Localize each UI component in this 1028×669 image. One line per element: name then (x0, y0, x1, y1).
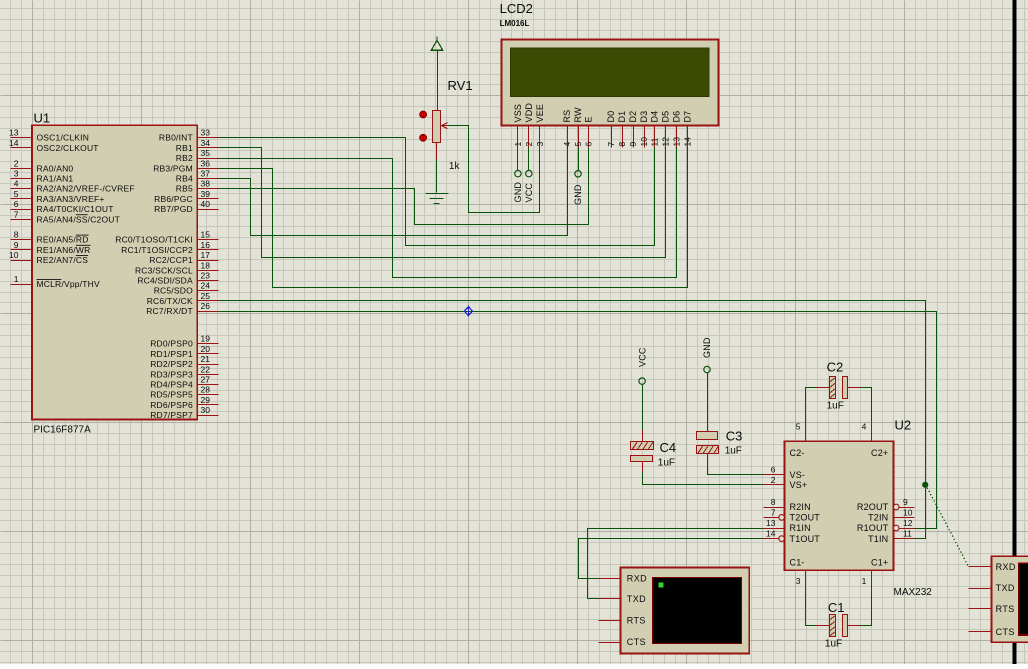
svg-text:25: 25 (201, 291, 211, 301)
svg-text:D4: D4 (650, 111, 660, 123)
wire GND to C3 (707, 373, 709, 421)
svg-text:RXD: RXD (627, 573, 647, 583)
ground symbol below RV1 (426, 194, 449, 204)
microcontroller U1 PIC16F877A body (32, 125, 197, 419)
capacitor C3 (697, 432, 719, 454)
svg-text:9: 9 (903, 497, 908, 507)
svg-text:CTS: CTS (996, 627, 1015, 637)
svg-text:RB7/PGD: RB7/PGD (154, 204, 193, 214)
svg-text:R2IN: R2IN (790, 502, 811, 512)
svg-text:VS-: VS- (790, 470, 806, 480)
wire C1 to U2 pin3 (806, 592, 816, 626)
U2 pin 1 bottom stub (862, 571, 872, 592)
wire C2 to U2 pin4 (861, 388, 872, 422)
ground terminal GND above C3 (702, 337, 712, 373)
U2 pin 3 bottom stub (796, 571, 806, 592)
svg-text:RW: RW (573, 107, 583, 123)
svg-text:VS+: VS+ (790, 480, 808, 490)
svg-text:RA2/AN2/VREF-/CVREF: RA2/AN2/VREF-/CVREF (37, 184, 135, 194)
svg-text:4: 4 (14, 179, 19, 189)
wire RB0 (pin33) to LCD D4 (219, 138, 655, 246)
svg-text:6: 6 (584, 142, 594, 147)
junction node dot (922, 482, 928, 488)
svg-text:TXD: TXD (627, 594, 646, 604)
ground terminal under VSS (513, 170, 523, 202)
wire RB4 (pin37) to LCD RS (219, 148, 568, 236)
U2 pin 2 VS+ stub (764, 475, 785, 485)
svg-text:RB1: RB1 (176, 143, 193, 153)
svg-text:7: 7 (14, 209, 19, 219)
virtual terminal pin labels (627, 573, 647, 647)
svg-text:RB4: RB4 (176, 174, 193, 184)
power arrow terminal above RV1 (431, 37, 443, 51)
U1 left pin names (37, 133, 135, 289)
svg-text:9: 9 (628, 142, 638, 147)
U2 pin 11 T1IN stub (894, 529, 915, 539)
LCD LCD2 body (501, 39, 718, 125)
svg-text:30: 30 (201, 405, 211, 415)
svg-text:C1-: C1- (790, 558, 805, 568)
svg-text:RE2/AN7/CS: RE2/AN7/CS (37, 255, 89, 265)
U2 pin 12 R1OUT stub with bubble (893, 518, 914, 531)
C1 left lead (816, 625, 830, 627)
svg-text:RA5/AN4/SS/C2OUT: RA5/AN4/SS/C2OUT (37, 214, 121, 224)
C4 top lead (642, 431, 644, 442)
svg-text:28: 28 (201, 385, 211, 395)
svg-text:D7: D7 (683, 111, 693, 123)
svg-text:TXD: TXD (996, 583, 1015, 593)
U2 pin 6 VS- stub (764, 465, 785, 475)
svg-text:27: 27 (201, 375, 211, 385)
U1 right pin stubs and numbers (198, 128, 219, 416)
svg-text:5: 5 (14, 189, 19, 199)
svg-text:RD2/PSP2: RD2/PSP2 (150, 359, 193, 369)
svg-text:3: 3 (796, 576, 801, 586)
svg-text:29: 29 (201, 395, 211, 405)
wire U2 R1IN to terminal TXD (588, 529, 764, 599)
U2 pin 10 T2IN stub (894, 507, 915, 517)
svg-text:1: 1 (14, 274, 19, 284)
svg-text:D6: D6 (672, 111, 682, 123)
svg-text:1uF: 1uF (658, 458, 675, 469)
svg-text:R1OUT: R1OUT (857, 523, 889, 533)
svg-text:RV1: RV1 (448, 78, 473, 93)
U1 right pin names (115, 133, 193, 420)
capacitor C2 (830, 377, 848, 399)
power terminal VCC under VDD (524, 170, 534, 202)
svg-text:26: 26 (201, 301, 211, 311)
svg-text:OSC2/CLKOUT: OSC2/CLKOUT (37, 143, 99, 153)
svg-text:3: 3 (14, 169, 19, 179)
RV1 bottom terminal indicator dot (420, 134, 427, 141)
svg-text:T1IN: T1IN (868, 534, 888, 544)
svg-text:RC4/SDI/SDA: RC4/SDI/SDA (137, 276, 193, 286)
svg-text:23: 23 (201, 271, 211, 281)
C1 right lead (848, 625, 861, 627)
svg-text:22: 22 (201, 364, 211, 374)
svg-text:21: 21 (201, 354, 211, 364)
wire C4 to U2 VS+ (643, 472, 764, 485)
svg-text:T2OUT: T2OUT (790, 513, 821, 523)
svg-text:RB0/INT: RB0/INT (159, 133, 193, 143)
svg-text:RXD: RXD (996, 562, 1016, 572)
svg-text:2: 2 (14, 158, 19, 168)
svg-text:34: 34 (201, 138, 211, 148)
svg-text:RB6/PGC: RB6/PGC (154, 194, 193, 204)
svg-text:C3: C3 (726, 429, 743, 444)
svg-text:38: 38 (201, 179, 211, 189)
svg-text:39: 39 (201, 189, 211, 199)
svg-text:20: 20 (201, 344, 211, 354)
svg-text:RD4/PSP4: RD4/PSP4 (150, 380, 193, 390)
svg-text:RA3/AN3/VREF+: RA3/AN3/VREF+ (37, 194, 105, 204)
svg-text:RE1/AN6/WR: RE1/AN6/WR (37, 245, 91, 255)
svg-text:LM016L: LM016L (500, 19, 530, 28)
capacitor C1 (830, 615, 848, 637)
svg-text:RC3/SCK/SCL: RC3/SCK/SCL (135, 265, 193, 275)
RV1 bottom lead (436, 143, 438, 160)
svg-text:C1+: C1+ (871, 558, 888, 568)
sheet border line (1013, 0, 1017, 664)
svg-text:RA0/AN0: RA0/AN0 (37, 163, 74, 173)
svg-text:CTS: CTS (627, 637, 646, 647)
svg-text:1k: 1k (449, 161, 461, 172)
MAX232 U2 body (785, 441, 894, 570)
svg-text:VEE: VEE (535, 104, 545, 123)
svg-text:8: 8 (617, 142, 627, 147)
C2 right lead (848, 387, 861, 389)
svg-text:OSC1/CLKIN: OSC1/CLKIN (37, 133, 90, 143)
svg-text:T2IN: T2IN (868, 513, 888, 523)
svg-text:RB5: RB5 (176, 184, 193, 194)
svg-text:T1OUT: T1OUT (790, 534, 821, 544)
wire RC6/TX (pin25) to MAX232 T1IN (219, 301, 926, 539)
svg-text:RD7/PSP7: RD7/PSP7 (150, 410, 193, 420)
svg-text:VSS: VSS (513, 104, 523, 123)
svg-text:RC1/T1OSI/CCP2: RC1/T1OSI/CCP2 (121, 245, 193, 255)
wire VCC to C4 (642, 385, 644, 431)
svg-text:17: 17 (201, 250, 211, 260)
potentiometer RV1 body (433, 111, 441, 143)
svg-text:RC2/CCP1: RC2/CCP1 (149, 255, 193, 265)
svg-text:7: 7 (606, 142, 616, 147)
LCD pin names rotated (513, 103, 693, 123)
svg-text:R1IN: R1IN (790, 523, 811, 533)
svg-text:1uF: 1uF (725, 446, 742, 457)
svg-text:RA1/AN1: RA1/AN1 (37, 174, 74, 184)
C4 bottom lead (642, 462, 644, 472)
svg-text:1uF: 1uF (825, 639, 842, 650)
svg-text:12: 12 (661, 137, 671, 147)
svg-text:MAX232: MAX232 (894, 587, 933, 598)
svg-text:13: 13 (672, 137, 682, 147)
ground terminal under RW (573, 171, 583, 205)
wire RB1 (pin34) to LCD D5 (219, 148, 666, 258)
wire MAX232 T1IN to junction (915, 538, 926, 540)
wire RV1 wiper to LCD VEE (448, 126, 540, 213)
wire RB2 (pin35) to LCD D6 (219, 148, 677, 278)
svg-text:PIC16F877A: PIC16F877A (34, 425, 92, 436)
svg-text:D5: D5 (661, 111, 671, 123)
COM port pin labels (996, 562, 1016, 637)
COM port pin stubs (969, 567, 992, 632)
U2 pin 9 R2OUT stub with bubble (893, 497, 914, 510)
svg-text:RE0/AN5/RD: RE0/AN5/RD (37, 235, 89, 245)
svg-text:RD3/PSP3: RD3/PSP3 (150, 369, 193, 379)
svg-text:8: 8 (771, 497, 776, 507)
svg-text:3: 3 (535, 142, 545, 147)
svg-text:RD1/PSP1: RD1/PSP1 (150, 349, 193, 359)
origin marker blue diamond on RX wire (464, 306, 472, 317)
svg-text:C2-: C2- (790, 448, 805, 458)
svg-text:MCLR/Vpp/THV: MCLR/Vpp/THV (37, 279, 100, 289)
wire MAX232 R1OUT to RX riser (915, 528, 937, 530)
svg-text:10: 10 (639, 137, 649, 147)
svg-text:6: 6 (14, 199, 19, 209)
svg-text:RC0/T1OSO/T1CKI: RC0/T1OSO/T1CKI (115, 235, 193, 245)
capacitor C4 (631, 442, 654, 462)
U2 pin 4 top stub (862, 422, 872, 442)
wire C3 to U2 VS- (708, 466, 764, 475)
wire VSS to ground terminal (517, 148, 519, 171)
svg-text:14: 14 (766, 529, 776, 539)
svg-text:C4: C4 (660, 440, 677, 455)
svg-text:8: 8 (14, 230, 19, 240)
svg-text:37: 37 (201, 169, 211, 179)
svg-text:6: 6 (771, 465, 776, 475)
svg-text:RTS: RTS (627, 615, 646, 625)
U2 pin 7 T2OUT stub with bubble (764, 507, 785, 520)
svg-text:VDD: VDD (524, 103, 534, 123)
svg-text:VCC: VCC (637, 347, 647, 367)
svg-text:4: 4 (862, 422, 867, 432)
svg-text:LCD2: LCD2 (500, 1, 533, 16)
svg-text:R2OUT: R2OUT (857, 502, 889, 512)
svg-text:RD6/PSP6: RD6/PSP6 (150, 400, 193, 410)
wire RV1 to ground (436, 160, 438, 193)
C3 top lead (707, 421, 709, 432)
svg-text:RC6/TX/CK: RC6/TX/CK (147, 296, 193, 306)
svg-text:14: 14 (9, 138, 19, 148)
svg-text:10: 10 (9, 250, 19, 260)
svg-text:VCC: VCC (524, 183, 534, 203)
wire RB3 (pin36) to LCD D7 (219, 148, 688, 288)
svg-text:2: 2 (524, 142, 534, 147)
svg-text:16: 16 (201, 240, 211, 250)
U1 left pin stubs and numbers (9, 128, 32, 285)
svg-text:RC5/SDO: RC5/SDO (154, 286, 193, 296)
svg-text:14: 14 (683, 137, 693, 147)
wire RW to ground terminal (578, 148, 580, 171)
wire RC7/RX (pin26) to MAX232 R1OUT (219, 312, 937, 529)
svg-text:36: 36 (201, 158, 211, 168)
svg-text:1: 1 (862, 576, 867, 586)
svg-text:D2: D2 (628, 111, 638, 123)
svg-text:13: 13 (9, 128, 19, 138)
svg-text:33: 33 (201, 128, 211, 138)
svg-text:RC7/RX/DT: RC7/RX/DT (146, 306, 193, 316)
svg-text:15: 15 (201, 230, 211, 240)
svg-text:7: 7 (771, 507, 776, 517)
svg-text:U1: U1 (34, 110, 51, 125)
wire RB5 (pin38) to LCD E (219, 148, 589, 225)
svg-text:C1: C1 (828, 600, 845, 615)
svg-text:13: 13 (766, 518, 776, 528)
svg-text:1: 1 (513, 142, 523, 147)
U2 pin 13 R1IN stub (764, 518, 785, 529)
svg-text:19: 19 (201, 334, 211, 344)
virtual terminal pin stubs (599, 579, 621, 643)
COM port terminal body (992, 556, 1028, 642)
U2 inside labels left (790, 448, 821, 568)
wire C1 to U2 pin1 (861, 592, 872, 626)
svg-text:RD0/PSP0: RD0/PSP0 (150, 339, 193, 349)
svg-text:40: 40 (201, 199, 211, 209)
svg-text:RA4/T0CKI/C1OUT: RA4/T0CKI/C1OUT (37, 204, 114, 214)
svg-text:24: 24 (201, 281, 211, 291)
svg-text:5: 5 (796, 422, 801, 432)
power terminal VCC above C4 (637, 347, 647, 384)
svg-text:GND: GND (513, 182, 523, 203)
svg-text:C2: C2 (827, 360, 844, 375)
svg-text:9: 9 (14, 240, 19, 250)
U2 inside labels right (857, 448, 889, 568)
svg-text:10: 10 (903, 507, 913, 517)
svg-text:35: 35 (201, 148, 211, 158)
RV1 wiper arrow (442, 123, 448, 129)
svg-text:GND: GND (702, 337, 712, 358)
U2 pin 8 R2IN stub (764, 497, 785, 508)
C2 left lead (816, 387, 830, 389)
svg-text:D1: D1 (617, 111, 627, 123)
virtual terminal cursor (659, 583, 664, 588)
svg-text:RD5/PSP5: RD5/PSP5 (150, 390, 193, 400)
svg-text:RTS: RTS (996, 604, 1015, 614)
wire VDD to power terminal (528, 148, 530, 171)
LCD pin stubs (518, 126, 688, 148)
U2 pin 14 T1OUT stub with bubble (764, 529, 785, 542)
LCD pin numbers rotated (513, 137, 693, 147)
C3 bottom lead (707, 454, 709, 466)
RV1 top terminal indicator dot (420, 111, 427, 118)
svg-text:4: 4 (562, 142, 572, 147)
svg-text:E: E (584, 116, 594, 122)
dotted wire junction to COM port RXD (926, 485, 969, 567)
wire U2 T1OUT to terminal RXD (579, 539, 764, 579)
wire power arrow to RV1 (437, 51, 439, 93)
svg-text:RB3/PGM: RB3/PGM (153, 163, 193, 173)
RV1 top lead (437, 93, 439, 111)
svg-text:RB2: RB2 (176, 153, 193, 163)
svg-text:D3: D3 (639, 111, 649, 123)
svg-text:12: 12 (903, 518, 913, 528)
svg-text:1uF: 1uF (827, 401, 844, 412)
U2 pin 5 top stub (796, 422, 806, 442)
virtual terminal body (621, 568, 750, 654)
wire C2 to U2 pin5 (806, 388, 816, 422)
svg-text:11: 11 (903, 529, 912, 539)
svg-text:RS: RS (562, 110, 572, 123)
svg-text:D0: D0 (606, 111, 616, 123)
svg-text:18: 18 (201, 260, 211, 270)
svg-text:U2: U2 (895, 418, 912, 433)
svg-text:2: 2 (771, 475, 776, 485)
svg-text:GND: GND (573, 184, 583, 205)
svg-text:11: 11 (650, 137, 660, 146)
svg-text:5: 5 (573, 142, 583, 147)
svg-text:C2+: C2+ (871, 448, 888, 458)
